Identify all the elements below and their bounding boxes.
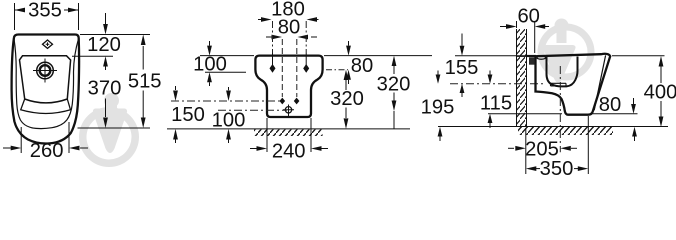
dim 195 arrows xyxy=(437,71,439,75)
dim 150 arrows xyxy=(175,86,177,90)
dim 400 line and arrows xyxy=(660,67,662,117)
dim 260 arrows xyxy=(3,147,11,149)
svg-text:155: 155 xyxy=(445,57,479,79)
leader from body bottom to right xyxy=(78,127,151,129)
dim 80 right arrows xyxy=(348,41,350,46)
basin rim front band xyxy=(21,99,71,114)
leader foot bottom xyxy=(488,113,638,115)
svg-text:60: 60 xyxy=(517,5,539,27)
drain centerline vertical xyxy=(559,66,561,152)
dim 355 line xyxy=(15,9,79,11)
foot front extension below floor xyxy=(587,116,589,174)
horizontal centerline lower xyxy=(218,109,287,111)
dim 260 extension lines xyxy=(21,122,69,153)
svg-text:120: 120 xyxy=(87,34,121,56)
leader body top left xyxy=(200,55,254,57)
floor line front xyxy=(167,128,410,130)
dim 240 arrows xyxy=(250,148,257,150)
dim 115 arrows xyxy=(489,71,491,75)
faucet hole xyxy=(37,62,54,79)
fixing hole diamond left xyxy=(270,64,276,73)
centerline fixing left xyxy=(272,21,274,53)
dim 205 arrows xyxy=(508,147,514,149)
drain symbol xyxy=(285,107,291,113)
wall extension below floor xyxy=(525,128,527,174)
svg-text:400: 400 xyxy=(644,82,676,104)
svg-text:320: 320 xyxy=(330,88,364,110)
basin cavity xyxy=(547,56,578,86)
leader body top right xyxy=(324,55,432,57)
leader from body top to right xyxy=(80,34,150,36)
tap centerline side xyxy=(450,83,545,85)
rim lip at back deck xyxy=(537,57,545,60)
svg-text:195: 195 xyxy=(421,97,455,119)
svg-text:100: 100 xyxy=(212,109,246,131)
dim 515 line and arrows xyxy=(142,46,144,118)
dim 100 top arrows xyxy=(209,41,211,46)
dim 320 inner line and arrows xyxy=(345,80,347,118)
svg-text:350: 350 xyxy=(540,158,574,177)
floor hatch side xyxy=(518,127,613,135)
floor hatch front xyxy=(254,130,323,137)
svg-text:80: 80 xyxy=(599,94,621,116)
dim 350 line and arrows xyxy=(536,168,540,170)
side body front inner line xyxy=(594,55,605,110)
tap hole diamond right xyxy=(294,98,300,105)
svg-text:515: 515 xyxy=(128,71,162,93)
top view body inner line xyxy=(14,38,79,129)
centerline fixing right xyxy=(305,21,307,53)
side body outline xyxy=(536,54,611,115)
centerline tap right xyxy=(296,39,298,97)
centerline fixing right stub xyxy=(326,69,348,71)
svg-text:115: 115 xyxy=(480,93,512,115)
svg-text:240: 240 xyxy=(272,140,306,162)
watermark logo right xyxy=(538,19,595,83)
dim 155 arrows xyxy=(461,34,463,46)
svg-text:355: 355 xyxy=(28,0,62,22)
drain plate xyxy=(551,83,567,86)
dim 80 arrows xyxy=(266,36,317,38)
leader top of bidet xyxy=(455,55,665,57)
leader fixing left xyxy=(205,71,246,73)
floor line side xyxy=(438,126,668,128)
svg-text:80: 80 xyxy=(278,17,300,39)
wall hatch xyxy=(517,29,527,127)
svg-text:320: 320 xyxy=(377,74,411,96)
fixing hole diamond xyxy=(43,40,53,48)
centerline tap left xyxy=(281,39,283,97)
dim 180 line and arrows xyxy=(258,19,319,21)
dim 120 arrows xyxy=(105,13,107,25)
dim 355 extension lines xyxy=(15,3,79,30)
svg-text:80: 80 xyxy=(351,55,373,77)
basin rim outline xyxy=(20,56,71,103)
dim 100 bottom arrows xyxy=(228,87,230,90)
leader from rim top to right xyxy=(72,55,113,57)
arrow 355 left xyxy=(15,8,26,13)
watermark logo left xyxy=(79,93,139,167)
fixing bolt behind bidet xyxy=(529,57,535,64)
dim 320 outer line and arrows xyxy=(393,66,395,129)
arrow 355 right xyxy=(68,8,79,13)
dim 80 side arrows xyxy=(633,98,635,104)
svg-text:100: 100 xyxy=(193,54,227,76)
svg-text:370: 370 xyxy=(88,78,122,100)
svg-text:150: 150 xyxy=(171,104,205,126)
dim 60 extension lines xyxy=(517,21,535,53)
svg-text:260: 260 xyxy=(30,140,64,162)
fixing hole diamond right xyxy=(303,64,309,73)
top view body outline xyxy=(12,35,80,144)
bidet top line through wall xyxy=(517,55,528,57)
dim 370 arrow xyxy=(105,99,107,118)
dim 60 arrows xyxy=(500,26,506,28)
front body outline xyxy=(255,56,322,117)
extension lines 240 xyxy=(267,118,311,152)
horizontal centerline upper xyxy=(171,100,280,102)
tap hole diamond left xyxy=(280,98,286,105)
